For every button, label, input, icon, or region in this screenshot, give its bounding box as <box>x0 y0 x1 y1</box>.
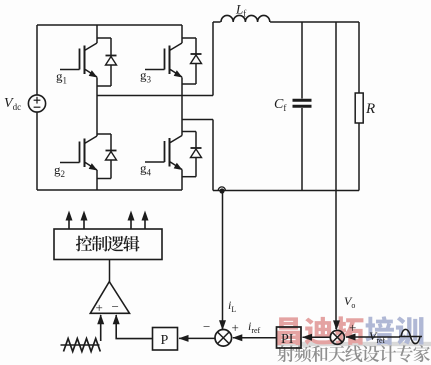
wire: Cf top lead <box>301 22 303 99</box>
svg-text:P: P <box>161 333 169 348</box>
sine reference source <box>399 329 422 343</box>
wire: g4 emitter to bottom rail <box>181 170 183 191</box>
wire: multiplier M1 to P box <box>179 335 215 342</box>
gate drive arrow 1 <box>66 211 73 230</box>
text 控制逻辑 <box>76 236 140 252</box>
watermark text 射频和天线设计专家 <box>278 345 430 362</box>
wire: load bottom rail <box>213 190 359 192</box>
svg-text:Cf: Cf <box>274 97 286 113</box>
gate drive arrow 4 <box>142 211 149 230</box>
svg-text:PI: PI <box>281 332 294 347</box>
inductor Lf <box>221 15 270 22</box>
wire: node A to g2 collector <box>96 96 98 137</box>
wire: PI output to M1 (iref) <box>232 334 276 341</box>
svg-text:g2: g2 <box>54 162 65 179</box>
wire: node B to g4 collector <box>181 120 183 136</box>
diode D2 <box>97 134 117 179</box>
svg-text:−: − <box>112 299 119 314</box>
wire: Lf riser up <box>212 22 214 96</box>
transistor g3 (IGBT) <box>145 43 183 78</box>
diode D4 <box>182 132 202 177</box>
wire: load top rail <box>270 21 359 23</box>
node: iL junction dot <box>219 188 224 193</box>
svg-text:g4: g4 <box>140 161 152 178</box>
wire: Cf bottom lead <box>301 108 303 191</box>
arrowhead Vo into multiplier M2 <box>333 320 340 330</box>
multiplier M2 (voltage loop summing) <box>330 330 344 344</box>
svg-text:−: − <box>203 319 210 334</box>
wire: Vref into M2 <box>346 334 401 341</box>
wire: g2 emitter to bottom rail <box>96 170 98 190</box>
arrow carrier into comparator + input <box>97 314 104 341</box>
wire: box to comparator apex <box>109 260 111 283</box>
voltage source Vdc <box>28 95 45 112</box>
wire: node B to right drop <box>182 119 213 121</box>
wire: multiplier M2 to PI box <box>302 334 330 341</box>
carrier midline <box>61 344 100 346</box>
wire: g1 emitter to node A <box>96 78 98 96</box>
svg-text:Vo: Vo <box>344 294 355 310</box>
transistor g1 (IGBT) <box>60 43 98 78</box>
wire: Vo sense upper <box>335 22 337 191</box>
wire: right drop down <box>212 120 214 191</box>
svg-text:Vdc: Vdc <box>4 96 21 112</box>
wire: left rail upper (to Vdc +) <box>36 25 38 96</box>
wire: left rail lower (from Vdc -) <box>36 112 38 190</box>
wire: g1 collector from top rail <box>96 25 98 43</box>
control logic box 控制逻辑 <box>54 229 162 260</box>
svg-text:g1: g1 <box>56 69 67 86</box>
wire: iL sense line down <box>222 191 224 329</box>
svg-text:Lf: Lf <box>235 2 246 19</box>
resistor R <box>355 93 363 123</box>
svg-text:+: + <box>96 300 103 315</box>
arrowhead iL into multiplier M1 <box>219 320 226 330</box>
svg-text:+: + <box>349 320 356 335</box>
sawtooth carrier waveform <box>64 339 101 352</box>
gate drive arrow 3 <box>128 211 135 230</box>
wire: R top lead <box>358 22 360 93</box>
gate drive arrow 2 <box>81 211 88 230</box>
P regulator box <box>153 328 178 351</box>
svg-text:iL: iL <box>228 298 236 314</box>
wire: bridge top rail <box>37 24 182 26</box>
wire: g3 emitter to node B <box>181 78 183 120</box>
diode D1 <box>97 38 117 86</box>
wire: R bottom lead <box>358 123 360 191</box>
svg-text:+: + <box>232 320 239 335</box>
svg-text:iref: iref <box>248 319 261 335</box>
wire: node A to Lf riser (crosses right leg) <box>97 95 213 97</box>
wire: Lf lead left <box>213 21 221 23</box>
wire: g3 collector from top rail <box>181 25 183 43</box>
watermark underline band <box>277 342 431 346</box>
transistor g2 (IGBT) <box>60 136 98 171</box>
wire: bridge bottom rail <box>37 189 182 191</box>
svg-text:R: R <box>365 101 375 117</box>
op-amp comparator (triangle) <box>90 282 129 315</box>
capacitor Cf <box>293 100 312 106</box>
PI regulator box <box>277 327 302 348</box>
diode D3 <box>182 38 202 84</box>
multiplier M1 (current loop summing) <box>215 330 232 347</box>
wire: P output to comparator - input <box>113 314 152 338</box>
watermark text 昌迪拓 (pink) <box>277 316 364 345</box>
watermark text 培训 (blue) <box>365 316 423 345</box>
wire: Vo sense lower to M2 <box>335 191 337 330</box>
node: junction hop arc <box>218 187 225 191</box>
transistor g4 (IGBT) <box>145 136 183 171</box>
